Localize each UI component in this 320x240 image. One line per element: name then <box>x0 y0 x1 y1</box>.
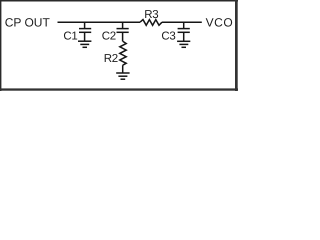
svg-text:CP OUT: CP OUT <box>5 16 51 30</box>
svg-text:C3: C3 <box>161 31 175 43</box>
svg-text:C1: C1 <box>63 31 77 43</box>
svg-text:R3: R3 <box>144 9 158 21</box>
svg-text:R2: R2 <box>104 53 118 65</box>
svg-text:VCO: VCO <box>206 16 234 30</box>
svg-text:C2: C2 <box>102 31 116 43</box>
